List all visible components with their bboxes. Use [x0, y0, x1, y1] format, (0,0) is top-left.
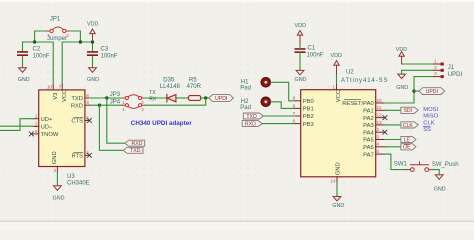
- wire TXD branch down to RXD label: [107, 98, 125, 143]
- U2 pin 1 VCC top: [336, 84, 338, 90]
- svg-text:PB1: PB1: [303, 107, 314, 113]
- svg-text:GND: GND: [434, 187, 446, 193]
- svg-text:OE: OE: [403, 145, 411, 151]
- svg-text:C3: C3: [101, 47, 109, 53]
- U2 pin 11 PA1: [376, 109, 385, 111]
- power VDD above U2: [334, 61, 339, 74]
- svg-text:4: 4: [377, 142, 380, 147]
- global label RXD at U2: [242, 121, 262, 127]
- wire VDD bus from U3 VCC to C3/VDD: [62, 42, 92, 85]
- svg-text:V3: V3: [53, 93, 59, 100]
- svg-text:UPDI: UPDI: [426, 89, 438, 95]
- wire JP1 pin1 branch: [35, 31, 47, 42]
- ground below U3: [54, 186, 62, 191]
- svg-text:CLK: CLK: [423, 120, 434, 126]
- svg-text:GND: GND: [87, 77, 99, 83]
- wire U2 PA7 to SW1: [385, 154, 406, 170]
- wire U2 PA1 to SDI label: [385, 109, 401, 111]
- power VDD above C3: [90, 29, 95, 42]
- junction node VDD C3: [91, 40, 94, 43]
- svg-text:7: 7: [59, 85, 62, 90]
- svg-text:Pad: Pad: [240, 105, 251, 111]
- U3 pin 4 RTS: [85, 154, 90, 156]
- svg-text:470R: 470R: [187, 84, 202, 90]
- connector J1 UPDI pin 3: [433, 76, 441, 78]
- U3 pin 3 GND bottom: [56, 167, 58, 173]
- global label RXD: [125, 140, 145, 146]
- svg-text:UPDI: UPDI: [448, 72, 463, 78]
- wire U2 PA6 to OE label: [385, 146, 401, 148]
- svg-text:LL4148: LL4148: [160, 84, 181, 90]
- U2 pin 12 PA2: [376, 117, 385, 119]
- U2 pin 2 PA4: [376, 131, 385, 133]
- ground below C2: [19, 68, 27, 73]
- wire J1 pin2 to ground: [402, 70, 433, 74]
- svg-text:RX: RX: [149, 96, 157, 102]
- ground below SW1: [435, 175, 443, 180]
- wire stub to UPDI label: [414, 90, 419, 92]
- power VDD at J1: [399, 52, 404, 64]
- svg-text:GND: GND: [295, 77, 307, 83]
- svg-text:RXD: RXD: [132, 141, 143, 147]
- wire JP1 pin2 branch: [69, 31, 80, 42]
- svg-text:VDD: VDD: [295, 23, 306, 29]
- wire U2 VCC to VDD: [336, 74, 338, 84]
- wire U3 GND pin to ground: [56, 173, 58, 186]
- wire TXD label to U2 PB2: [263, 115, 296, 117]
- svg-text:GND: GND: [53, 196, 65, 202]
- svg-text:RXD: RXD: [71, 103, 83, 109]
- svg-text:JP3: JP3: [110, 92, 121, 98]
- svg-text:RTS: RTS: [72, 154, 84, 160]
- capacitor C3: [88, 52, 97, 55]
- svg-text:R5: R5: [189, 77, 197, 83]
- wire C3 to GND: [92, 56, 94, 68]
- U3 pin 7 VCC top: [61, 85, 63, 90]
- ground below C3: [89, 68, 97, 73]
- svg-text:8: 8: [86, 93, 89, 98]
- svg-text:TXD: TXD: [71, 96, 83, 102]
- svg-text:UPDI: UPDI: [215, 96, 227, 102]
- no-connect X on RTS: [87, 153, 91, 157]
- junction node UPDI: [204, 96, 207, 99]
- U2 pin 5 PA7: [376, 153, 385, 155]
- svg-text:PB3: PB3: [303, 122, 314, 128]
- wire H1 to U2 PB0: [271, 82, 296, 101]
- power VDD above C1: [297, 31, 302, 44]
- global label CLK: [401, 122, 418, 128]
- svg-text:6: 6: [35, 129, 38, 134]
- wire U3 RXD to JP4: [89, 104, 122, 106]
- svg-text:C2: C2: [33, 47, 41, 53]
- svg-text:CLK: CLK: [403, 123, 414, 129]
- wire C1 top to VDD: [299, 44, 301, 49]
- svg-text:100nF: 100nF: [307, 53, 324, 59]
- junction node VDD bus jumper: [79, 40, 82, 43]
- svg-text:10: 10: [47, 85, 53, 90]
- svg-text:TNOW: TNOW: [41, 132, 59, 138]
- svg-text:PB0: PB0: [303, 99, 314, 105]
- U3 pin 9 RXD: [85, 104, 90, 106]
- global label TXD at U2: [243, 113, 263, 119]
- svg-text:PA4: PA4: [363, 130, 374, 136]
- sheet border bottom: [0, 220, 474, 222]
- U2 pin 6 PB3: [296, 123, 301, 125]
- svg-text:100nF: 100nF: [33, 54, 50, 60]
- svg-text:9: 9: [86, 100, 89, 105]
- svg-text:RXD: RXD: [245, 122, 256, 128]
- svg-text:SS: SS: [423, 127, 431, 133]
- svg-text:D35: D35: [163, 77, 175, 83]
- svg-text:Jumper: Jumper: [47, 36, 67, 42]
- connector J1 UPDI pin 1: [433, 63, 441, 65]
- global label TXD: [123, 147, 143, 153]
- svg-text:LE: LE: [404, 137, 411, 143]
- svg-text:Pad: Pad: [240, 85, 251, 91]
- wire diode to R5: [176, 97, 189, 99]
- connector J1 UPDI pin 2: [433, 69, 441, 71]
- U2 pin 3 PA5: [376, 139, 385, 141]
- capacitor C1: [295, 49, 304, 52]
- svg-text:13: 13: [377, 120, 383, 125]
- resistor R5 470R: [189, 96, 201, 101]
- svg-text:12: 12: [377, 113, 383, 118]
- junction node UPDI at J1: [412, 89, 415, 92]
- U3 pin 10 V3 top: [52, 85, 54, 90]
- svg-text:1: 1: [122, 100, 125, 105]
- ground at J1: [398, 74, 406, 79]
- svg-text:GND: GND: [52, 151, 58, 164]
- svg-text:7: 7: [293, 111, 296, 116]
- wire U2 PA3 to CLK label: [385, 124, 401, 126]
- svg-text:GND: GND: [336, 162, 342, 175]
- svg-text:CH340E: CH340E: [67, 180, 90, 186]
- wire SW1 to ground: [434, 170, 440, 175]
- no-connect X on CTS: [87, 118, 91, 122]
- svg-text:1: 1: [122, 107, 125, 112]
- svg-text:GND: GND: [332, 203, 344, 209]
- U2 pin 10 RESET/PA0: [376, 102, 385, 104]
- U3 pin 1 UD+: [33, 118, 39, 120]
- wire U2 GND pin to ground: [336, 183, 338, 196]
- U3 pin 5 CTS: [85, 120, 90, 122]
- svg-text:MISO: MISO: [423, 114, 438, 120]
- junction node V3 bus: [33, 40, 36, 43]
- svg-text:10: 10: [377, 98, 383, 103]
- svg-text:VDD: VDD: [331, 53, 342, 59]
- svg-text:CH340 UPDI adapter: CH340 UPDI adapter: [131, 120, 192, 127]
- junction node TXD: [105, 96, 108, 99]
- svg-text:U3: U3: [67, 174, 75, 180]
- svg-text:RESET/PA0: RESET/PA0: [342, 101, 373, 107]
- svg-text:9: 9: [293, 96, 296, 101]
- svg-text:6: 6: [293, 119, 296, 124]
- U2 pin 13 PA3: [376, 124, 385, 126]
- svg-text:PB2: PB2: [303, 114, 314, 120]
- wire J1 pin1 to VDD: [402, 63, 433, 65]
- global label LE: [401, 136, 416, 142]
- wire V3 bus from C2 to U3 pin V3: [23, 42, 54, 85]
- svg-text:1: 1: [332, 84, 335, 89]
- svg-text:SW1: SW1: [394, 161, 408, 167]
- svg-text:U2: U2: [346, 70, 354, 76]
- svg-text:8: 8: [293, 103, 296, 108]
- svg-text:100nF: 100nF: [101, 54, 118, 60]
- svg-text:TX: TX: [149, 90, 156, 96]
- wire JP3 to diode: [145, 97, 167, 99]
- svg-text:GND: GND: [396, 85, 408, 91]
- no-connect X on PA2: [383, 116, 387, 120]
- svg-text:CTS: CTS: [71, 119, 83, 125]
- U2 pin 9 PB0: [296, 100, 301, 102]
- svg-text:1: 1: [35, 114, 38, 119]
- U3 pin 2 UD-: [33, 125, 39, 127]
- svg-text:3: 3: [53, 168, 56, 173]
- U2 pin 8 PB1: [296, 107, 301, 109]
- wire J1 pin3 to UPDI node and U2 RESET: [385, 77, 433, 103]
- U2 pin 14 GND bottom: [336, 177, 338, 183]
- svg-text:PA5: PA5: [363, 138, 374, 144]
- svg-text:PA2: PA2: [363, 116, 374, 122]
- svg-text:11: 11: [377, 105, 382, 110]
- wire JP4 RX run joining UPDI node: [145, 98, 206, 105]
- svg-text:VDD: VDD: [87, 22, 98, 28]
- svg-text:PA1: PA1: [363, 109, 374, 115]
- wire RXD label to U2 PB3: [262, 123, 296, 125]
- global label UPDI at J1: [419, 88, 445, 95]
- U2 pin 7 PB2: [296, 115, 301, 117]
- svg-text:JP4: JP4: [110, 100, 121, 106]
- svg-text:PA6: PA6: [363, 145, 374, 151]
- svg-text:ATtiny414-SS: ATtiny414-SS: [341, 78, 388, 84]
- svg-text:2: 2: [35, 121, 38, 126]
- svg-text:TXD: TXD: [246, 114, 257, 120]
- svg-text:TXD: TXD: [130, 148, 141, 154]
- U2 pin 4 PA6: [376, 146, 385, 148]
- wire U2 PA5 to LE label: [385, 139, 401, 141]
- svg-text:UD+: UD+: [41, 117, 53, 123]
- wire C2 to GND: [22, 56, 24, 68]
- svg-text:5: 5: [377, 149, 380, 154]
- svg-text:J1: J1: [448, 65, 455, 71]
- svg-text:2: 2: [434, 65, 437, 70]
- U3 pin 8 TXD: [85, 97, 90, 99]
- svg-text:SDI: SDI: [403, 108, 412, 114]
- wire U3 TXD to JP3: [89, 97, 122, 99]
- wire H2 to U2 PB1: [271, 102, 296, 109]
- svg-text:MOSI: MOSI: [423, 107, 438, 113]
- wire USB D- entering sheet to U3 UD-: [0, 125, 33, 127]
- switch SW1 SW_Push: [406, 162, 434, 172]
- svg-text:GND: GND: [18, 77, 30, 83]
- global label SDI: [401, 107, 418, 113]
- svg-text:PA7: PA7: [363, 152, 374, 158]
- wire C1 bottom to ground: [299, 52, 301, 70]
- capacitor C2: [18, 52, 27, 55]
- svg-text:PA3: PA3: [363, 123, 374, 129]
- svg-text:JP1: JP1: [50, 17, 61, 23]
- wire R5 to UPDI label: [201, 97, 209, 99]
- global label UPDI: [209, 95, 234, 102]
- svg-text:14: 14: [330, 178, 336, 183]
- svg-text:1: 1: [434, 59, 437, 64]
- IC U2 ATtiny414-SS body: [301, 90, 376, 177]
- svg-text:2: 2: [377, 127, 380, 132]
- wire RXD branch down to TXD label: [99, 105, 123, 150]
- ground below U2: [333, 197, 341, 202]
- wire USB D+ entering sheet to U3 UD+: [0, 119, 33, 131]
- pad H2: [261, 97, 270, 106]
- svg-text:VCC: VCC: [62, 90, 68, 102]
- IC U3 CH340E body: [39, 90, 85, 167]
- pad H1: [261, 78, 270, 87]
- svg-text:3: 3: [434, 71, 437, 76]
- svg-text:3: 3: [377, 134, 380, 139]
- jumper JP4: [122, 104, 144, 109]
- svg-text:SW_Push: SW_Push: [432, 162, 459, 168]
- diode D35 LL4148: [167, 95, 176, 102]
- svg-text:2: 2: [141, 107, 144, 112]
- global label OE: [401, 144, 416, 150]
- no-connect X on TNOW: [29, 132, 33, 136]
- svg-text:C1: C1: [308, 46, 316, 52]
- U3 pin 6 TNOW: [32, 133, 39, 135]
- ground below C1: [296, 70, 304, 75]
- svg-text:VDD: VDD: [396, 47, 407, 53]
- jumper JP1: [47, 27, 69, 33]
- no-connect X on PA4: [383, 130, 387, 134]
- jumper JP3: [122, 95, 144, 100]
- junction node RXD: [98, 104, 101, 107]
- svg-text:UD–: UD–: [41, 125, 53, 131]
